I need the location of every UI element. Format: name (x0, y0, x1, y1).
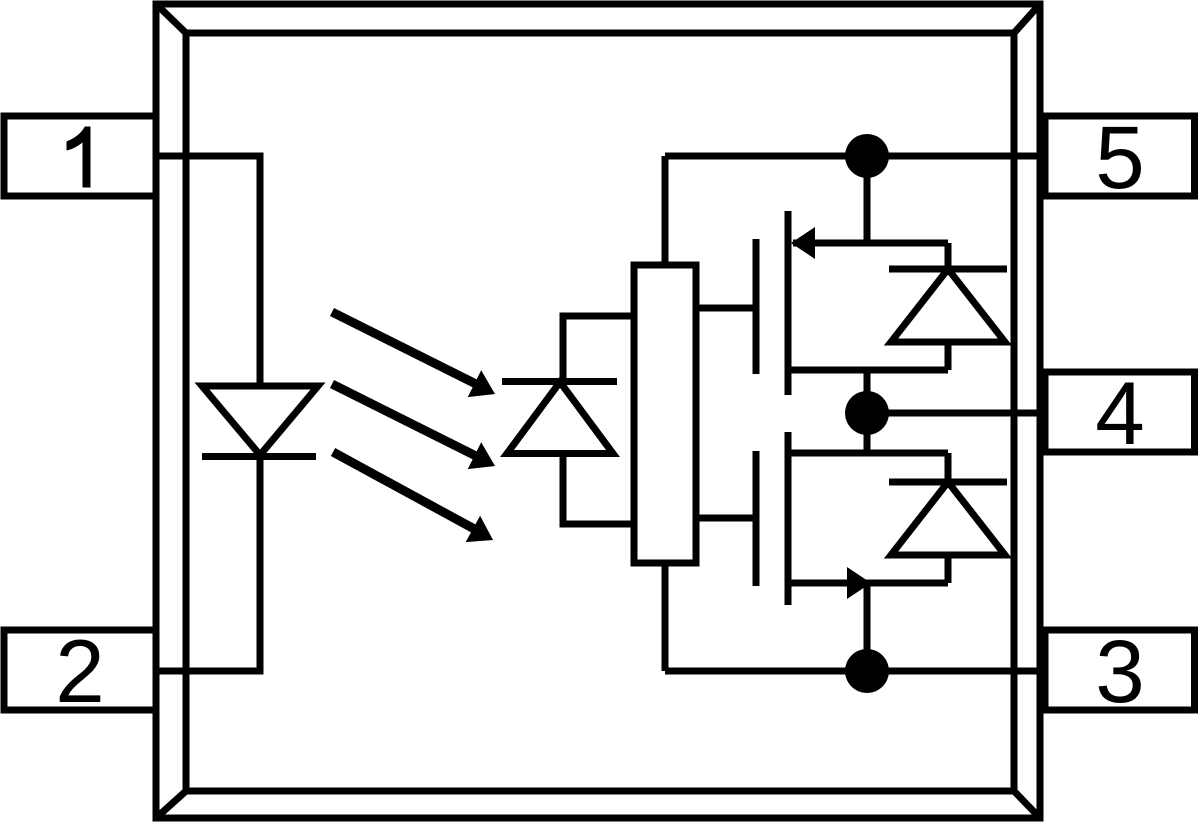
body diode D3 triangle (891, 482, 1005, 555)
light arrow 3 head (466, 516, 493, 542)
wire block bottom to pin3 rail (662, 563, 669, 671)
package corner bevel bottom-left (156, 791, 186, 818)
transistor Q1 channel plate (785, 211, 792, 395)
control block U1 (634, 265, 696, 563)
light arrow 1 shaft (332, 312, 480, 386)
wire node4 to Q2 source line (864, 413, 871, 453)
wire D2 anode to Q1 source line (945, 342, 952, 370)
package outer border (156, 4, 1040, 818)
body diode D3 cathode bar (889, 479, 1007, 486)
wire gate Q2 (696, 515, 756, 522)
node 3 junction dot (845, 649, 889, 693)
wire Q2 drain to node3 (864, 583, 871, 671)
transistor Q2 channel plate (785, 432, 792, 605)
wire photodiode bottom to control block (563, 453, 634, 524)
wire Q2 source to body diode D3 (945, 453, 952, 482)
photodiode PD triangle (507, 382, 613, 454)
wire pin3 rail (665, 668, 1045, 675)
wire Q1 source to node4 (864, 370, 871, 413)
wire pin1 to LED anode (156, 156, 260, 386)
pin 4 box (1045, 372, 1195, 452)
LED D1 anode bar (201, 383, 319, 390)
package corner bevel top-left (156, 4, 186, 33)
pin 3 box (1045, 630, 1195, 710)
light arrow 3 shaft (333, 452, 478, 531)
pin 5 box (1045, 116, 1195, 196)
transistor Q2 drain line (788, 580, 948, 587)
wire LED cathode to pin2 (156, 456, 260, 671)
svg-text:5: 5 (1095, 107, 1145, 207)
light arrow 1 head (468, 370, 495, 397)
svg-text:2: 2 (55, 621, 105, 721)
wire pin5 rail (665, 153, 1045, 160)
transistor Q2 source line (788, 450, 948, 457)
package inner border (186, 33, 1014, 791)
svg-text:4: 4 (1095, 363, 1145, 463)
transistor Q1 drain line (793, 240, 948, 247)
light arrow 2 head (468, 442, 495, 469)
package corner bevel top-right (1014, 4, 1040, 33)
node 5 junction dot (845, 134, 889, 178)
wire gate Q1 (696, 305, 756, 312)
wire Q1 drain to node5 (864, 156, 871, 243)
wire photodiode top to control block (563, 316, 634, 381)
body diode D2 triangle (891, 269, 1005, 342)
transistor Q2 source arrow (847, 567, 871, 599)
transistor Q1 source arrow (791, 227, 815, 259)
photodiode PD cathode bar (502, 378, 617, 385)
node 4 junction dot (845, 391, 889, 435)
pin 1 label (67, 127, 91, 188)
svg-text:3: 3 (1095, 621, 1145, 721)
LED D1 cathode bar (202, 453, 316, 460)
wire D3 anode to Q2 drain line (945, 555, 952, 583)
body diode D2 cathode bar (889, 266, 1007, 273)
wire block top to pin5 rail (662, 156, 669, 265)
package corner bevel bottom-right (1014, 791, 1040, 818)
pin 2 box (4, 630, 156, 710)
pin 1 box (4, 116, 156, 196)
transistor Q1 source line (788, 367, 948, 374)
transistor Q1 gate plate (753, 239, 760, 374)
wire Q1 drain to body diode D2 (945, 243, 952, 269)
wire pin4 rail (867, 410, 1045, 417)
light arrow 2 shaft (332, 384, 480, 458)
transistor Q2 gate plate (753, 451, 760, 586)
LED D1 triangle (202, 386, 318, 455)
